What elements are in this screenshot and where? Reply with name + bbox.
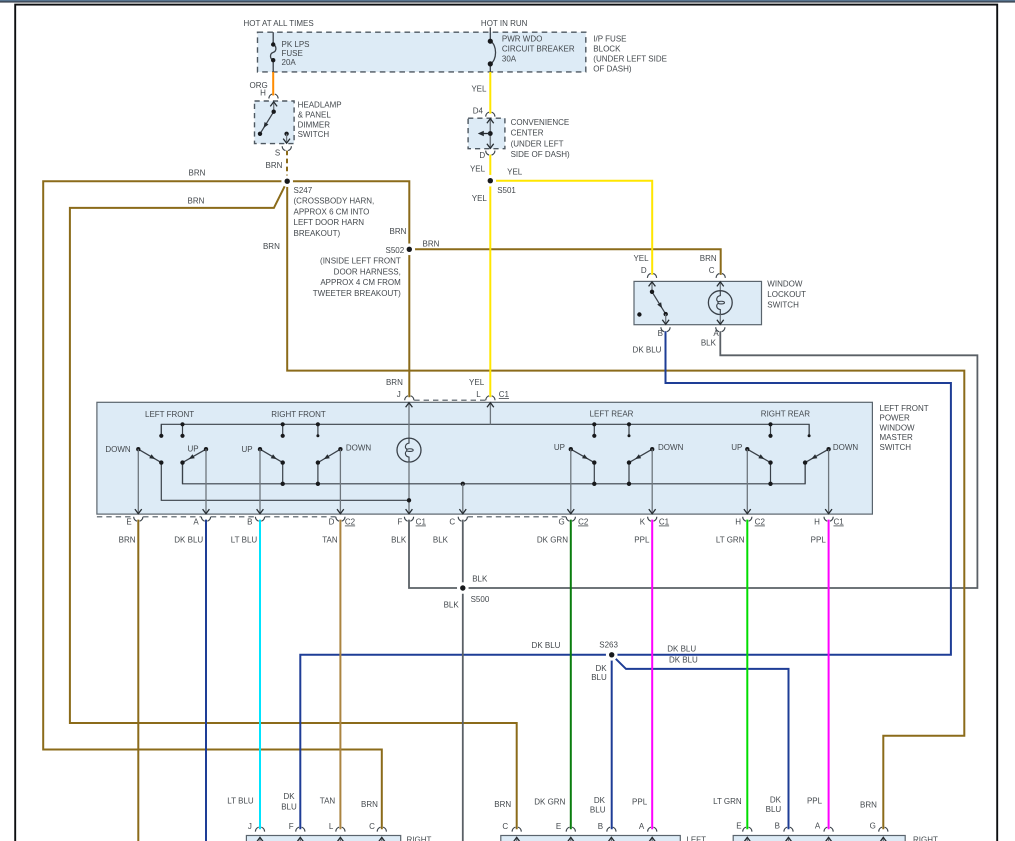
label L master pin — [476, 390, 481, 399]
label DOWN right rear — [833, 443, 859, 452]
right rear up switch — [744, 422, 773, 514]
svg-text:WINDOW: WINDOW — [767, 279, 803, 288]
lockout switch C connector — [716, 273, 725, 277]
svg-text:LEFT: LEFT — [686, 836, 706, 841]
svg-text:BLU: BLU — [766, 805, 782, 814]
svg-text:H: H — [260, 88, 266, 97]
label D lockout pin — [641, 266, 647, 275]
right front switch pin arrows — [257, 837, 386, 841]
svg-text:BRN: BRN — [263, 242, 280, 251]
left rear window switch box (bottom) — [501, 836, 681, 841]
bottom wire color labels group 2 — [494, 796, 647, 815]
wire DK BLU master A to left front motor — [205, 520, 207, 841]
left rear switch pin letters — [502, 822, 645, 831]
wire BRN S247 down to S502 branch and master J — [287, 181, 409, 397]
svg-text:DK: DK — [594, 796, 606, 805]
label C lockout pin — [709, 266, 715, 275]
svg-text:YEL: YEL — [507, 167, 523, 176]
svg-text:E: E — [736, 821, 741, 830]
svg-text:DIMMER: DIMMER — [298, 120, 331, 129]
svg-text:MASTER: MASTER — [880, 433, 914, 442]
label HOT IN RUN — [481, 19, 528, 28]
label DOWN left rear — [658, 443, 684, 452]
bottom wire color labels group 1 — [227, 792, 378, 811]
svg-text:C: C — [709, 266, 715, 275]
svg-text:D: D — [641, 266, 647, 275]
label YEL below D — [470, 164, 486, 173]
svg-text:POWER: POWER — [880, 414, 910, 423]
svg-text:BRN: BRN — [386, 378, 403, 387]
wire BLK master C through S500 to ground — [462, 520, 464, 841]
wire DK BLU S263 down to left rear switch B — [611, 655, 613, 829]
label S501 — [497, 186, 516, 195]
label UP left front — [187, 445, 198, 454]
svg-text:BRN: BRN — [188, 196, 205, 205]
svg-text:DOWN: DOWN — [346, 444, 372, 453]
master bottom connector ids — [345, 518, 844, 527]
label HEADLAMP & PANEL DIMMER SWITCH — [298, 101, 342, 140]
label YEL above D4 — [471, 84, 487, 93]
svg-text:(INSIDE LEFT FRONT: (INSIDE LEFT FRONT — [320, 257, 401, 266]
svg-text:J: J — [248, 822, 252, 831]
svg-text:RIGHT: RIGHT — [407, 836, 432, 841]
left rear down switch — [627, 422, 656, 514]
svg-text:TAN: TAN — [320, 796, 336, 805]
svg-text:DK: DK — [770, 795, 782, 804]
splice S500 — [457, 582, 469, 594]
label DOWN right front — [346, 444, 372, 453]
right front down switch — [316, 422, 344, 514]
label BRN left of S247 down wire — [263, 242, 280, 251]
right front switch connectors — [255, 827, 386, 831]
I/P fuse block (dashed box) — [258, 32, 586, 72]
svg-text:S263: S263 — [599, 641, 618, 650]
wire BLK window lockout A to S500 — [463, 331, 978, 588]
svg-text:A: A — [639, 822, 645, 831]
svg-text:DOWN: DOWN — [833, 443, 859, 452]
svg-text:& PANEL: & PANEL — [298, 110, 332, 119]
label YEL above master L — [469, 378, 485, 387]
convenience center D connector — [486, 151, 495, 155]
svg-text:TAN: TAN — [322, 536, 338, 545]
label S247 block — [294, 186, 375, 238]
master bottom pin letters — [126, 518, 820, 527]
right rear window switch box (bottom) — [733, 836, 905, 841]
label DK BLU left of S263 — [532, 641, 561, 650]
label YEL right of S501 — [507, 167, 523, 176]
svg-text:B: B — [247, 518, 252, 527]
label BRN wire B — [188, 196, 205, 205]
label YEL lockout D wire — [633, 254, 649, 263]
wire YEL convenience center D to splice S501 — [489, 155, 491, 181]
svg-text:L: L — [329, 822, 334, 831]
svg-text:BRN: BRN — [494, 800, 511, 809]
svg-text:LEFT REAR: LEFT REAR — [590, 409, 634, 418]
svg-text:BLK: BLK — [701, 339, 717, 348]
master switch J pin lamp feed entry — [406, 402, 413, 438]
label S263 — [599, 641, 618, 650]
svg-text:RIGHT FRONT: RIGHT FRONT — [271, 410, 326, 419]
svg-text:F: F — [289, 822, 294, 831]
left front up switch — [180, 422, 209, 514]
svg-text:PPL: PPL — [634, 536, 650, 545]
svg-text:LT GRN: LT GRN — [716, 536, 745, 545]
svg-text:BLU: BLU — [281, 802, 297, 811]
svg-text:S501: S501 — [497, 186, 516, 195]
svg-text:DK BLU: DK BLU — [532, 641, 561, 650]
label PK LPS FUSE 20A — [282, 40, 310, 67]
wire BRN S247 to left rear switch C — [70, 181, 517, 829]
svg-text:B: B — [598, 822, 603, 831]
lockout switch arm — [650, 290, 668, 317]
svg-text:E: E — [556, 822, 561, 831]
svg-text:C2: C2 — [578, 518, 589, 527]
svg-text:DK BLU: DK BLU — [667, 645, 696, 654]
right rear down switch — [803, 424, 832, 514]
svg-text:BLOCK: BLOCK — [593, 45, 621, 54]
lockout switch A connector — [716, 327, 725, 331]
wire BRN S247 to right rear switch G — [287, 181, 964, 829]
right front up switch — [257, 422, 285, 514]
svg-text:BLK: BLK — [472, 575, 488, 584]
label DK BLU right of S263 upper — [667, 645, 696, 654]
master switch ground bus to F pin — [161, 463, 411, 503]
svg-text:RIGHT: RIGHT — [913, 836, 938, 841]
svg-text:SWITCH: SWITCH — [298, 130, 330, 139]
label DOWN left front — [105, 445, 131, 454]
svg-text:CIRCUIT BREAKER: CIRCUIT BREAKER — [502, 45, 575, 54]
label LEFT FRONT — [145, 410, 194, 419]
svg-text:BLK: BLK — [433, 536, 449, 545]
svg-text:YEL: YEL — [469, 378, 485, 387]
master output wire color labels — [119, 536, 827, 545]
svg-text:B: B — [775, 821, 780, 830]
label J master pin — [397, 390, 401, 399]
headlamp dimmer switch box — [255, 101, 295, 144]
label I/P FUSE BLOCK — [593, 34, 667, 73]
right rear switch pin letters — [736, 821, 876, 830]
right front window switch box (bottom) — [246, 836, 400, 841]
svg-text:H: H — [735, 518, 741, 527]
svg-text:CONVENIENCE: CONVENIENCE — [511, 118, 570, 127]
left rear up switch — [567, 422, 596, 514]
svg-text:PK LPS: PK LPS — [282, 40, 310, 49]
svg-text:I/P FUSE: I/P FUSE — [593, 34, 626, 43]
label BRN above S502 — [390, 227, 407, 236]
lockout switch B pin exit — [662, 314, 669, 325]
right rear switch connectors — [743, 827, 888, 831]
svg-text:PWR WDO: PWR WDO — [502, 35, 542, 44]
circuit breaker PWR WDO 30A — [488, 27, 496, 72]
label RIGHT FRONT — [271, 410, 326, 419]
svg-text:SWITCH: SWITCH — [767, 301, 799, 310]
wire BRN S247 left to right front switch C — [43, 181, 382, 829]
convenience center D4 connector — [486, 112, 495, 116]
svg-text:S247: S247 — [294, 186, 313, 195]
svg-text:DOOR HARNESS,: DOOR HARNESS, — [334, 267, 401, 276]
svg-text:LT BLU: LT BLU — [227, 796, 254, 805]
wire BRN master E to left front motor — [137, 520, 139, 841]
svg-text:CENTER: CENTER — [511, 129, 544, 138]
label LEFT FRONT POWER WINDOW MASTER SWITCH — [880, 404, 929, 452]
svg-text:LOCKOUT: LOCKOUT — [767, 290, 806, 299]
wire YEL S501 to master switch L — [489, 181, 491, 398]
svg-text:DOWN: DOWN — [658, 443, 684, 452]
wire BLK master F to S500 — [409, 520, 463, 588]
svg-text:APPROX 6 CM INTO: APPROX 6 CM INTO — [294, 207, 370, 216]
svg-text:S: S — [275, 149, 280, 158]
left rear switch connectors — [512, 827, 657, 831]
svg-text:BRN: BRN — [390, 227, 407, 236]
svg-text:BREAKOUT): BREAKOUT) — [294, 229, 341, 238]
svg-text:SWITCH: SWITCH — [880, 443, 912, 452]
svg-text:L: L — [476, 390, 481, 399]
label A lockout pin — [713, 329, 719, 338]
master switch C pin ground stub — [459, 482, 466, 515]
lockout switch illumination lamp — [708, 281, 732, 324]
wire DK BLU S263 to right front switch F — [300, 655, 611, 829]
label DK BLU right of S263 lower — [669, 656, 698, 665]
svg-text:DK BLU: DK BLU — [669, 656, 698, 665]
svg-text:UP: UP — [241, 445, 252, 454]
svg-text:YEL: YEL — [471, 84, 487, 93]
lockout switch B connector — [661, 327, 670, 331]
wire YEL S501 to window lockout switch D — [490, 181, 652, 275]
lockout switch open contact — [637, 312, 641, 316]
svg-text:LEFT FRONT: LEFT FRONT — [145, 410, 194, 419]
svg-text:DK: DK — [595, 664, 607, 673]
svg-text:BRN: BRN — [860, 800, 877, 809]
label ORG — [249, 81, 267, 90]
svg-text:DK BLU: DK BLU — [633, 346, 662, 355]
svg-text:LT BLU: LT BLU — [231, 536, 258, 545]
label LEFT REAR — [590, 409, 634, 418]
svg-text:UP: UP — [187, 445, 198, 454]
svg-text:D: D — [329, 518, 335, 527]
svg-text:B: B — [658, 329, 663, 338]
svg-text:HEADLAMP: HEADLAMP — [298, 101, 342, 110]
svg-text:TWEETER BREAKOUT): TWEETER BREAKOUT) — [313, 289, 401, 298]
svg-text:J: J — [397, 390, 401, 399]
master switch L pin feed entry — [487, 402, 494, 424]
svg-text:YEL: YEL — [633, 254, 649, 263]
svg-text:A: A — [193, 518, 199, 527]
svg-text:PPL: PPL — [632, 798, 648, 807]
splice S263 — [606, 649, 618, 661]
label B lockout pin — [658, 329, 663, 338]
svg-text:C1: C1 — [416, 518, 427, 527]
svg-text:H: H — [814, 518, 820, 527]
label HOT AT ALL TIMES — [243, 19, 313, 28]
dimmer switch S contact — [283, 132, 290, 144]
svg-text:BLK: BLK — [391, 536, 407, 545]
svg-text:LEFT DOOR HARN: LEFT DOOR HARN — [294, 218, 365, 227]
label BRN above master J — [386, 378, 403, 387]
dimmer switch arm — [258, 110, 276, 137]
svg-text:UP: UP — [554, 443, 565, 452]
label BLK lockout A wire — [701, 339, 717, 348]
svg-text:APPROX 4 CM FROM: APPROX 4 CM FROM — [320, 278, 401, 287]
svg-text:(UNDER LEFT: (UNDER LEFT — [511, 139, 564, 148]
wire ORG fuse to dimmer switch H — [272, 72, 274, 96]
label CONVENIENCE CENTER — [511, 118, 570, 159]
svg-text:C: C — [502, 822, 508, 831]
svg-text:K: K — [640, 518, 646, 527]
svg-text:DK GRN: DK GRN — [537, 536, 568, 545]
svg-text:SIDE OF DASH): SIDE OF DASH) — [511, 150, 570, 159]
label RIGHT at box1 — [407, 836, 432, 841]
power window master switch box — [97, 402, 873, 514]
bottom wire color labels group 3 — [713, 795, 877, 814]
svg-text:LT GRN: LT GRN — [713, 797, 742, 806]
wire BRN S502 to window lockout switch C — [409, 249, 720, 275]
svg-text:C1: C1 — [659, 518, 670, 527]
label S502 block — [313, 246, 405, 298]
svg-text:DK BLU: DK BLU — [174, 536, 203, 545]
svg-text:FUSE: FUSE — [282, 49, 303, 58]
svg-text:30A: 30A — [502, 55, 517, 64]
label UP right front — [241, 445, 252, 454]
window lockout switch box — [634, 281, 762, 324]
svg-text:S502: S502 — [386, 246, 405, 255]
right rear switch pin arrows — [744, 837, 887, 841]
svg-text:G: G — [870, 821, 876, 830]
master switch C1 top connector line — [405, 396, 495, 400]
label D pin convenience center — [479, 151, 485, 160]
label H pin — [260, 88, 266, 97]
label D4 pin — [473, 107, 484, 116]
label UP left rear — [554, 443, 565, 452]
svg-text:A: A — [815, 821, 821, 830]
svg-text:UP: UP — [731, 443, 742, 452]
svg-text:A: A — [713, 329, 719, 338]
master switch bottom connector line — [97, 517, 833, 521]
label BRN dimmer S wire — [266, 161, 283, 170]
svg-text:WINDOW: WINDOW — [880, 423, 916, 432]
label DK BLU lockout B wire — [633, 346, 662, 355]
svg-text:BRN: BRN — [423, 240, 440, 249]
label S500 — [471, 595, 490, 604]
svg-text:OF DASH): OF DASH) — [593, 65, 632, 74]
wire BRN dimmer switch S to splice S247 (dashed) — [286, 151, 288, 182]
wire LT GRN master H to right rear switch E — [746, 520, 748, 830]
svg-text:BLU: BLU — [590, 806, 606, 815]
splice S247 — [281, 175, 293, 187]
svg-text:D4: D4 — [473, 107, 484, 116]
svg-text:C1: C1 — [833, 518, 844, 527]
svg-text:BRN: BRN — [700, 254, 717, 263]
svg-text:LEFT FRONT: LEFT FRONT — [880, 404, 929, 413]
label DK BLU below S263 — [591, 664, 607, 682]
svg-text:(UNDER LEFT SIDE: (UNDER LEFT SIDE — [593, 55, 667, 64]
label UP right rear — [731, 443, 742, 452]
left front down switch — [135, 424, 164, 514]
splice S502 — [404, 244, 416, 256]
svg-text:C1: C1 — [499, 390, 510, 399]
wire DK BLU S263 to right rear switch B — [612, 655, 789, 829]
svg-text:E: E — [126, 518, 131, 527]
label S pin — [275, 149, 280, 158]
convenience center box — [468, 118, 505, 149]
left rear switch pin arrows — [513, 837, 655, 841]
label PWR WDO CIRCUIT BREAKER 30A — [502, 35, 575, 64]
wire DK BLU window lockout B to S263 — [612, 331, 951, 655]
svg-text:YEL: YEL — [470, 164, 486, 173]
label C1 top connector — [499, 390, 510, 399]
svg-text:D: D — [479, 151, 485, 160]
master switch illumination lamp — [397, 438, 421, 514]
label RIGHT REAR — [761, 409, 810, 418]
svg-text:C2: C2 — [755, 518, 766, 527]
wire PPL master K to left rear switch A — [651, 520, 653, 830]
lockout switch D connector — [647, 273, 656, 277]
master switch feed bus — [161, 424, 809, 436]
svg-text:S500: S500 — [471, 595, 490, 604]
svg-text:YEL: YEL — [472, 194, 488, 203]
wire DK GRN master G to left rear switch E — [570, 520, 572, 830]
svg-text:BLU: BLU — [591, 673, 607, 682]
svg-text:20A: 20A — [282, 58, 297, 67]
svg-text:F: F — [398, 518, 403, 527]
master switch ground bus to C pin — [183, 463, 806, 484]
svg-text:DOWN: DOWN — [105, 445, 131, 454]
fuse PK LPS 20A — [271, 32, 276, 72]
svg-text:HOT IN RUN: HOT IN RUN — [481, 19, 528, 28]
svg-text:C: C — [449, 518, 455, 527]
svg-text:BRN: BRN — [266, 161, 283, 170]
dimmer switch H connector — [269, 94, 278, 98]
svg-text:HOT AT ALL TIMES: HOT AT ALL TIMES — [243, 19, 313, 28]
label WINDOW LOCKOUT SWITCH — [767, 279, 806, 309]
label YEL below S501 — [472, 194, 488, 203]
label BRN lockout C wire — [700, 254, 717, 263]
wire YEL breaker to convenience center D4 — [489, 72, 491, 114]
svg-text:BRN: BRN — [189, 168, 206, 177]
svg-text:DK GRN: DK GRN — [534, 797, 565, 806]
svg-text:BRN: BRN — [119, 536, 136, 545]
right front switch pin letters — [248, 822, 375, 831]
svg-text:C: C — [369, 822, 375, 831]
label RIGHT at box3 — [913, 836, 938, 841]
svg-text:RIGHT REAR: RIGHT REAR — [761, 409, 810, 418]
svg-text:C2: C2 — [345, 518, 356, 527]
wire PPL master H to right rear switch A — [828, 520, 830, 830]
label LEFT at box2 — [686, 836, 706, 841]
convenience center feed-through — [478, 118, 494, 149]
label BRN right of S502 — [423, 240, 440, 249]
svg-text:G: G — [558, 518, 564, 527]
label BLK below S500 — [444, 601, 460, 610]
lockout switch D pin entry — [649, 281, 656, 291]
splice S501 — [485, 175, 497, 187]
dimmer switch H pin entry — [270, 101, 277, 112]
label BRN wire A — [189, 168, 206, 177]
svg-text:PPL: PPL — [811, 536, 827, 545]
dimmer switch S connector — [282, 146, 291, 150]
svg-text:(CROSSBODY HARN,: (CROSSBODY HARN, — [294, 197, 375, 206]
wire TAN master D to right front switch L — [339, 520, 341, 830]
svg-text:BLK: BLK — [444, 601, 460, 610]
svg-text:BRN: BRN — [361, 800, 378, 809]
svg-text:PPL: PPL — [807, 797, 823, 806]
label BLK above S500 — [472, 575, 488, 584]
wire LT BLU master B to right front switch J — [259, 520, 261, 830]
svg-text:DK: DK — [283, 792, 295, 801]
